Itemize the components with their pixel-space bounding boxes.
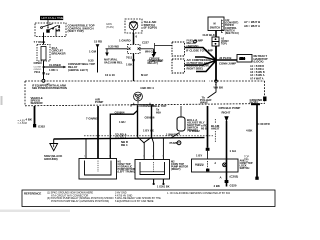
svg-text:1 BU: 1 BU	[119, 120, 125, 124]
svg-text:CONTROL: CONTROL	[149, 59, 163, 63]
svg-text:(RIGHT): (RIGHT)	[171, 168, 181, 171]
svg-text:6 EQUIPPED CA IF BY CAR HERE: 6 EQUIPPED CA IF BY CAR HERE	[115, 200, 154, 203]
svg-text:609: 609	[156, 110, 161, 114]
svg-text:SWITCH: SWITCH	[240, 167, 250, 170]
svg-text:(LOCK): (LOCK)	[254, 60, 264, 64]
svg-text:A 60902: A 60902	[189, 129, 200, 133]
svg-text:(ABOVE LEFT): (ABOVE LEFT)	[68, 68, 88, 72]
svg-text:BREAKER: BREAKER	[52, 51, 66, 55]
svg-text:C60906: C60906	[145, 116, 155, 120]
svg-text:(LEFT TRUNK): (LEFT TRUNK)	[118, 170, 136, 173]
svg-text:G320: G320	[230, 183, 237, 187]
svg-text:CLR BLK: CLR BLK	[203, 33, 216, 37]
svg-text:PUMP: PUMP	[170, 141, 178, 145]
svg-text:C 60 8TR: C 60 8TR	[258, 122, 270, 126]
svg-text:4 BK: 4 BK	[214, 184, 221, 188]
svg-text:A7 4 WHT A: A7 4 WHT A	[250, 77, 264, 80]
svg-text:15 RD: 15 RD	[94, 40, 102, 44]
svg-text:7011: 7011	[126, 55, 133, 59]
svg-text:CONN JUMP: CONN JUMP	[219, 62, 236, 66]
svg-text:1. ON CALIFORNIA VERSIONS CONN: 1. ON CALIFORNIA VERSIONS CONNECTED AT B…	[167, 192, 231, 195]
svg-text:M AV: M AV	[141, 73, 148, 77]
svg-text:7 T RD/B: 7 T RD/B	[34, 40, 46, 44]
svg-text:0.35: 0.35	[88, 58, 94, 62]
svg-text:4 BK RD 4: 4 BK RD 4	[140, 86, 154, 90]
svg-text:TO RD 4: TO RD 4	[115, 135, 127, 139]
svg-text:RIGHT SIDE): RIGHT SIDE)	[187, 66, 203, 70]
svg-text:SENSOR: SENSOR	[31, 101, 43, 105]
svg-text:VACUUM REL: VACUUM REL	[104, 60, 123, 64]
svg-text:(C202): (C202)	[230, 174, 239, 178]
svg-text:10 A 10: 10 A 10	[105, 73, 115, 77]
svg-text:(ABOVE): (ABOVE)	[187, 44, 199, 48]
svg-text:TOP): TOP)	[221, 43, 227, 46]
svg-text:SEE POWER DISTRIBUTION: SEE POWER DISTRIBUTION	[32, 86, 67, 90]
svg-text:OPN BLK PUMP: OPN BLK PUMP	[219, 106, 241, 110]
svg-text:7 GN/WS: 7 GN/WS	[86, 116, 98, 120]
svg-text:1 G301 BK: 1 G301 BK	[157, 186, 170, 189]
svg-text:1 GM: 1 GM	[89, 49, 97, 53]
svg-text:A603T: A603T	[211, 127, 220, 131]
svg-text:HOT AT ALL TIMES: HOT AT ALL TIMES	[42, 16, 66, 20]
svg-text:RB 4: RB 4	[121, 143, 128, 147]
svg-text:SWITCH: SWITCH	[210, 26, 220, 30]
svg-text:M: M	[214, 23, 216, 26]
svg-text:1 WH/GE: 1 WH/GE	[166, 132, 178, 136]
svg-text:POSITION PUMP RELAY (ALTERNATE: POSITION PUMP RELAY (ALTERNATE POSITIONS…	[51, 200, 109, 203]
svg-text:1 RD 1: 1 RD 1	[49, 68, 58, 72]
svg-text:1 BY GE: 1 BY GE	[143, 128, 154, 132]
svg-text:IF CLOSE TO PUMP: IF CLOSE TO PUMP	[186, 48, 213, 52]
svg-text:A: A	[220, 175, 222, 179]
svg-text:C227: C227	[142, 40, 149, 44]
svg-text:1 BK: 1 BK	[126, 62, 133, 66]
svg-text:(SEE TO 10): (SEE TO 10)	[225, 32, 239, 35]
svg-text:PUMP: PUMP	[95, 100, 103, 104]
svg-text:C60904: C60904	[115, 111, 125, 115]
svg-text:0.35 WS: 0.35 WS	[108, 44, 119, 48]
svg-text:(THIN): (THIN)	[106, 25, 114, 29]
svg-text:1 BY: 1 BY	[196, 153, 202, 157]
svg-text:A8 = WHT A: A8 = WHT A	[244, 24, 260, 28]
svg-text:CLOSED: CLOSED	[49, 63, 61, 67]
svg-text:WAVE: WAVE	[200, 101, 208, 105]
svg-text:1714: 1714	[240, 57, 246, 60]
svg-text:1 GA: 1 GA	[230, 149, 237, 153]
svg-text:= A 50M: = A 50M	[18, 121, 27, 125]
svg-text:4 BK: 4 BK	[26, 118, 33, 122]
svg-text:RIGHT: RIGHT	[222, 110, 231, 114]
svg-text:WH GN: WH GN	[145, 50, 155, 54]
svg-text:4 BK: 4 BK	[246, 128, 253, 132]
svg-text:OPEN 1: OPEN 1	[34, 69, 43, 71]
svg-text:OPEN: OPEN	[34, 61, 42, 65]
svg-text:GROUND): GROUND)	[44, 157, 58, 161]
svg-text:J2 PLR B: J2 PLR B	[219, 56, 232, 60]
svg-text:60 B: 60 B	[201, 126, 207, 130]
svg-text:(SOFT TOP): (SOFT TOP)	[68, 29, 84, 33]
svg-text:G302: G302	[38, 125, 45, 129]
svg-text:REFERENCE: REFERENCE	[24, 191, 41, 195]
svg-text:WH BK: WH BK	[214, 85, 225, 89]
svg-text:60902A: 60902A	[195, 163, 204, 166]
svg-text:(IF EQPD): (IF EQPD)	[144, 26, 157, 30]
svg-text:a CONVERTIBLE TOP: a CONVERTIBLE TOP	[137, 104, 166, 108]
svg-text:1 GN RD: 1 GN RD	[119, 39, 131, 43]
svg-text:C2: C2	[46, 72, 50, 76]
